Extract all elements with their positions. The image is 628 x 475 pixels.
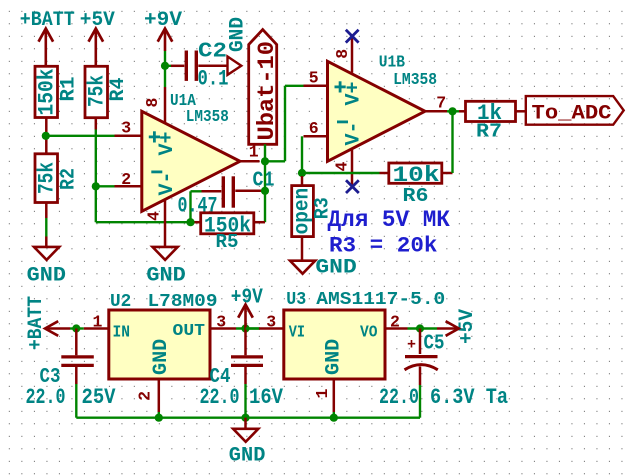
svg-text:R4: R4	[107, 78, 130, 102]
op-amp U1A pin 4 (V-) to ground	[164, 200, 167, 247]
wire R6 to output	[451, 111, 453, 173]
svg-text:C2: C2	[198, 41, 227, 64]
ground symbol on rail	[244, 418, 247, 429]
regulator U3 pin 1 GND	[333, 379, 336, 412]
capacitor C4	[244, 329, 247, 356]
op-amp U1A pin 3 wire	[115, 135, 142, 138]
svg-text:V-: V-	[343, 121, 366, 145]
svg-text:+: +	[407, 337, 416, 354]
svg-text:LM358: LM358	[186, 107, 229, 126]
junction U1B output	[448, 107, 456, 115]
resistor R6 right pin	[442, 172, 453, 175]
wire R3 node to R6	[302, 172, 380, 174]
svg-text:6.3V Ta: 6.3V Ta	[430, 385, 508, 410]
op-amp U1A triangle	[142, 111, 240, 211]
junction U2 gnd	[155, 414, 163, 422]
svg-text:GND: GND	[229, 445, 266, 468]
wire +9V node to U3	[246, 327, 259, 329]
svg-text:AMS1117-5.0: AMS1117-5.0	[316, 290, 445, 310]
junction C5 top	[416, 324, 424, 332]
hierarchical label Ubat-10 flag	[249, 30, 277, 145]
resistor R4 box	[85, 66, 108, 117]
capacitor C2	[165, 65, 171, 67]
svg-text:+5V: +5V	[80, 9, 116, 32]
svg-text:R5: R5	[216, 231, 239, 253]
capacitor C3	[75, 329, 78, 356]
regulator U3 box	[284, 310, 385, 379]
svg-text:1: 1	[93, 312, 103, 331]
junction R3 node	[298, 169, 306, 177]
svg-text:VO: VO	[360, 323, 378, 342]
resistor R5 left pin	[191, 221, 201, 224]
svg-text:V-: V-	[156, 171, 179, 195]
wire output node down	[264, 161, 266, 222]
svg-text:150k: 150k	[35, 69, 60, 116]
junction R5 left	[186, 218, 194, 226]
resistor R3 box	[292, 186, 314, 237]
resistor R5 box	[201, 213, 254, 234]
resistor R6 left pin	[380, 172, 389, 175]
wire +BATT to U2	[70, 327, 84, 329]
svg-text:7: 7	[436, 94, 446, 113]
svg-text:2: 2	[390, 312, 400, 331]
wire pin6 down	[301, 136, 303, 173]
svg-text:+BATT: +BATT	[25, 296, 48, 350]
wire node A to pin3	[48, 135, 115, 137]
resistor R5 right pin	[254, 221, 265, 224]
resistor R7 right pin	[516, 110, 526, 113]
resistor R3 top pin	[301, 176, 304, 186]
capacitor C1	[202, 190, 222, 193]
op-amp U1A pin 8 (V+)	[164, 87, 167, 123]
svg-text:VI: VI	[289, 323, 305, 342]
svg-text:R6: R6	[403, 185, 429, 207]
resistor R6 box	[389, 163, 442, 183]
junction +9V node	[241, 324, 249, 332]
node B junction	[92, 182, 100, 190]
junction C3 top	[72, 324, 80, 332]
op-amp U1B pin 8 no-connect	[351, 36, 354, 73]
wire node B down	[95, 186, 97, 222]
svg-text:R2: R2	[58, 168, 81, 190]
svg-text:+9V: +9V	[144, 9, 183, 32]
svg-text:+5V: +5V	[456, 308, 479, 344]
junction C1 right	[262, 190, 265, 192]
svg-text:V+: V+	[156, 131, 179, 155]
op-amp U1A plus marker	[149, 135, 160, 138]
svg-text:4: 4	[145, 211, 164, 221]
svg-text:U2: U2	[110, 292, 131, 312]
svg-text:22.0: 22.0	[379, 385, 419, 410]
svg-text:1: 1	[313, 389, 332, 399]
resistor R7 box	[466, 101, 516, 121]
resistor R2 box	[35, 154, 58, 203]
regulator U3 pin 3 VI	[259, 327, 284, 330]
op-amp U1A minus marker	[151, 170, 162, 173]
resistor R1 box	[35, 66, 58, 117]
svg-text:22.0: 22.0	[26, 385, 66, 410]
svg-text:R7: R7	[476, 121, 502, 143]
regulator U2 box	[109, 310, 210, 379]
wire to C1 left	[189, 191, 191, 222]
svg-text:Для 5V МК: Для 5V МК	[328, 207, 451, 233]
svg-text:3: 3	[121, 119, 131, 138]
junction +9V/C2	[161, 62, 169, 70]
svg-text:25V: 25V	[82, 385, 117, 410]
resistor R3 bottom pin	[301, 237, 304, 261]
wire U3 out to +5V	[408, 327, 438, 329]
wire flag to output node	[264, 144, 266, 161]
svg-text:22.0: 22.0	[200, 385, 240, 410]
wire feedback horizontal	[96, 221, 191, 223]
ground under R2	[34, 247, 59, 260]
regulator U2 pin 1 IN	[84, 327, 109, 330]
svg-text:8: 8	[143, 98, 162, 108]
svg-text:R3 = 20k: R3 = 20k	[329, 233, 438, 259]
ground under R3	[290, 261, 315, 274]
op-amp U1B triangle	[328, 61, 426, 161]
op-amp U1B pin 4 no-connect	[351, 150, 354, 187]
wire R2 bottom to GND	[45, 203, 48, 219]
svg-text:6: 6	[309, 119, 319, 138]
ground right-arrow after C2	[228, 57, 242, 75]
ground rail wire	[76, 417, 420, 419]
svg-text:2: 2	[121, 170, 131, 189]
svg-text:To_ADC: To_ADC	[532, 102, 612, 125]
capacitor C5 (polarized)	[419, 329, 422, 355]
svg-text:GND: GND	[227, 17, 250, 52]
junction rail center	[241, 414, 249, 422]
junction U3 gnd	[330, 414, 338, 422]
op-amp U1B pin 5 wire	[304, 85, 328, 88]
svg-text:OUT: OUT	[173, 322, 206, 341]
svg-text:75k: 75k	[35, 162, 60, 194]
svg-text:GND: GND	[146, 265, 185, 288]
regulator U2 pin 3 OUT	[210, 327, 236, 330]
wire +9V down to pin8	[164, 51, 166, 87]
junction U1A output	[261, 157, 269, 165]
svg-text:R1: R1	[58, 77, 81, 102]
svg-text:0.1: 0.1	[198, 67, 229, 92]
svg-text:3: 3	[266, 312, 276, 331]
svg-text:2: 2	[135, 391, 154, 401]
svg-text:4: 4	[332, 162, 351, 172]
svg-text:L78M09: L78M09	[148, 292, 218, 312]
op-amp U1A pin 2 wire	[115, 185, 142, 188]
svg-text:IN: IN	[113, 323, 131, 342]
svg-text:C5: C5	[424, 333, 445, 356]
svg-text:75k: 75k	[85, 75, 110, 107]
wire R1 bottom to node A	[45, 118, 48, 154]
wire R4 bottom	[95, 118, 98, 130]
op-amp U1B pin 6 wire	[304, 135, 328, 138]
svg-text:GND: GND	[315, 257, 356, 280]
ground under U1A	[153, 247, 178, 260]
op-amp U1B pin 7 output	[425, 110, 447, 113]
op-amp U1B plus marker	[335, 86, 346, 89]
regulator U2 pin 2 GND	[158, 379, 161, 412]
svg-text:GND: GND	[27, 265, 66, 288]
svg-text:V+: V+	[343, 81, 366, 105]
global label To_ADC flag	[526, 96, 624, 125]
svg-text:GND: GND	[323, 339, 346, 375]
regulator U3 pin 2 VO	[385, 327, 408, 330]
wire output to U1B pin5	[265, 160, 285, 162]
svg-text:16V: 16V	[249, 385, 284, 410]
svg-text:GND: GND	[150, 339, 173, 375]
resistor R7 left pin	[459, 110, 466, 113]
svg-text:3: 3	[216, 312, 226, 331]
op-amp U1B minus marker	[337, 121, 348, 124]
svg-text:LM358: LM358	[393, 70, 437, 89]
node A junction	[42, 132, 50, 140]
svg-text:Ubat-10: Ubat-10	[254, 41, 280, 141]
svg-text:U3: U3	[286, 290, 306, 310]
op-amp U1A pin 1 output	[240, 160, 260, 163]
wire U2 out to +9V node	[236, 327, 260, 329]
wire node B to pin2	[96, 185, 115, 187]
svg-text:8: 8	[333, 49, 352, 59]
svg-text:5: 5	[309, 69, 319, 88]
